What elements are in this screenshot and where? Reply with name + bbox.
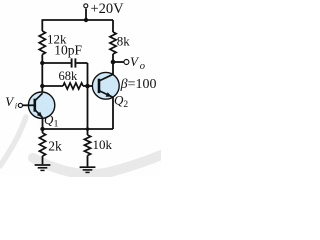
svg-text:Q: Q [44,112,54,127]
svg-text:o: o [140,61,145,72]
svg-text:+20V: +20V [91,1,125,17]
svg-text:β=100: β=100 [120,77,157,92]
svg-text:2: 2 [123,100,128,110]
svg-text:V: V [5,94,15,109]
svg-text:10pF: 10pF [54,43,82,58]
svg-text:68k: 68k [59,69,79,83]
svg-text:1: 1 [54,119,59,129]
svg-text:8k: 8k [117,33,131,48]
svg-text:10k: 10k [93,137,113,152]
svg-text:2k: 2k [48,139,62,154]
svg-text:i: i [15,101,18,111]
svg-text:V: V [130,54,140,69]
